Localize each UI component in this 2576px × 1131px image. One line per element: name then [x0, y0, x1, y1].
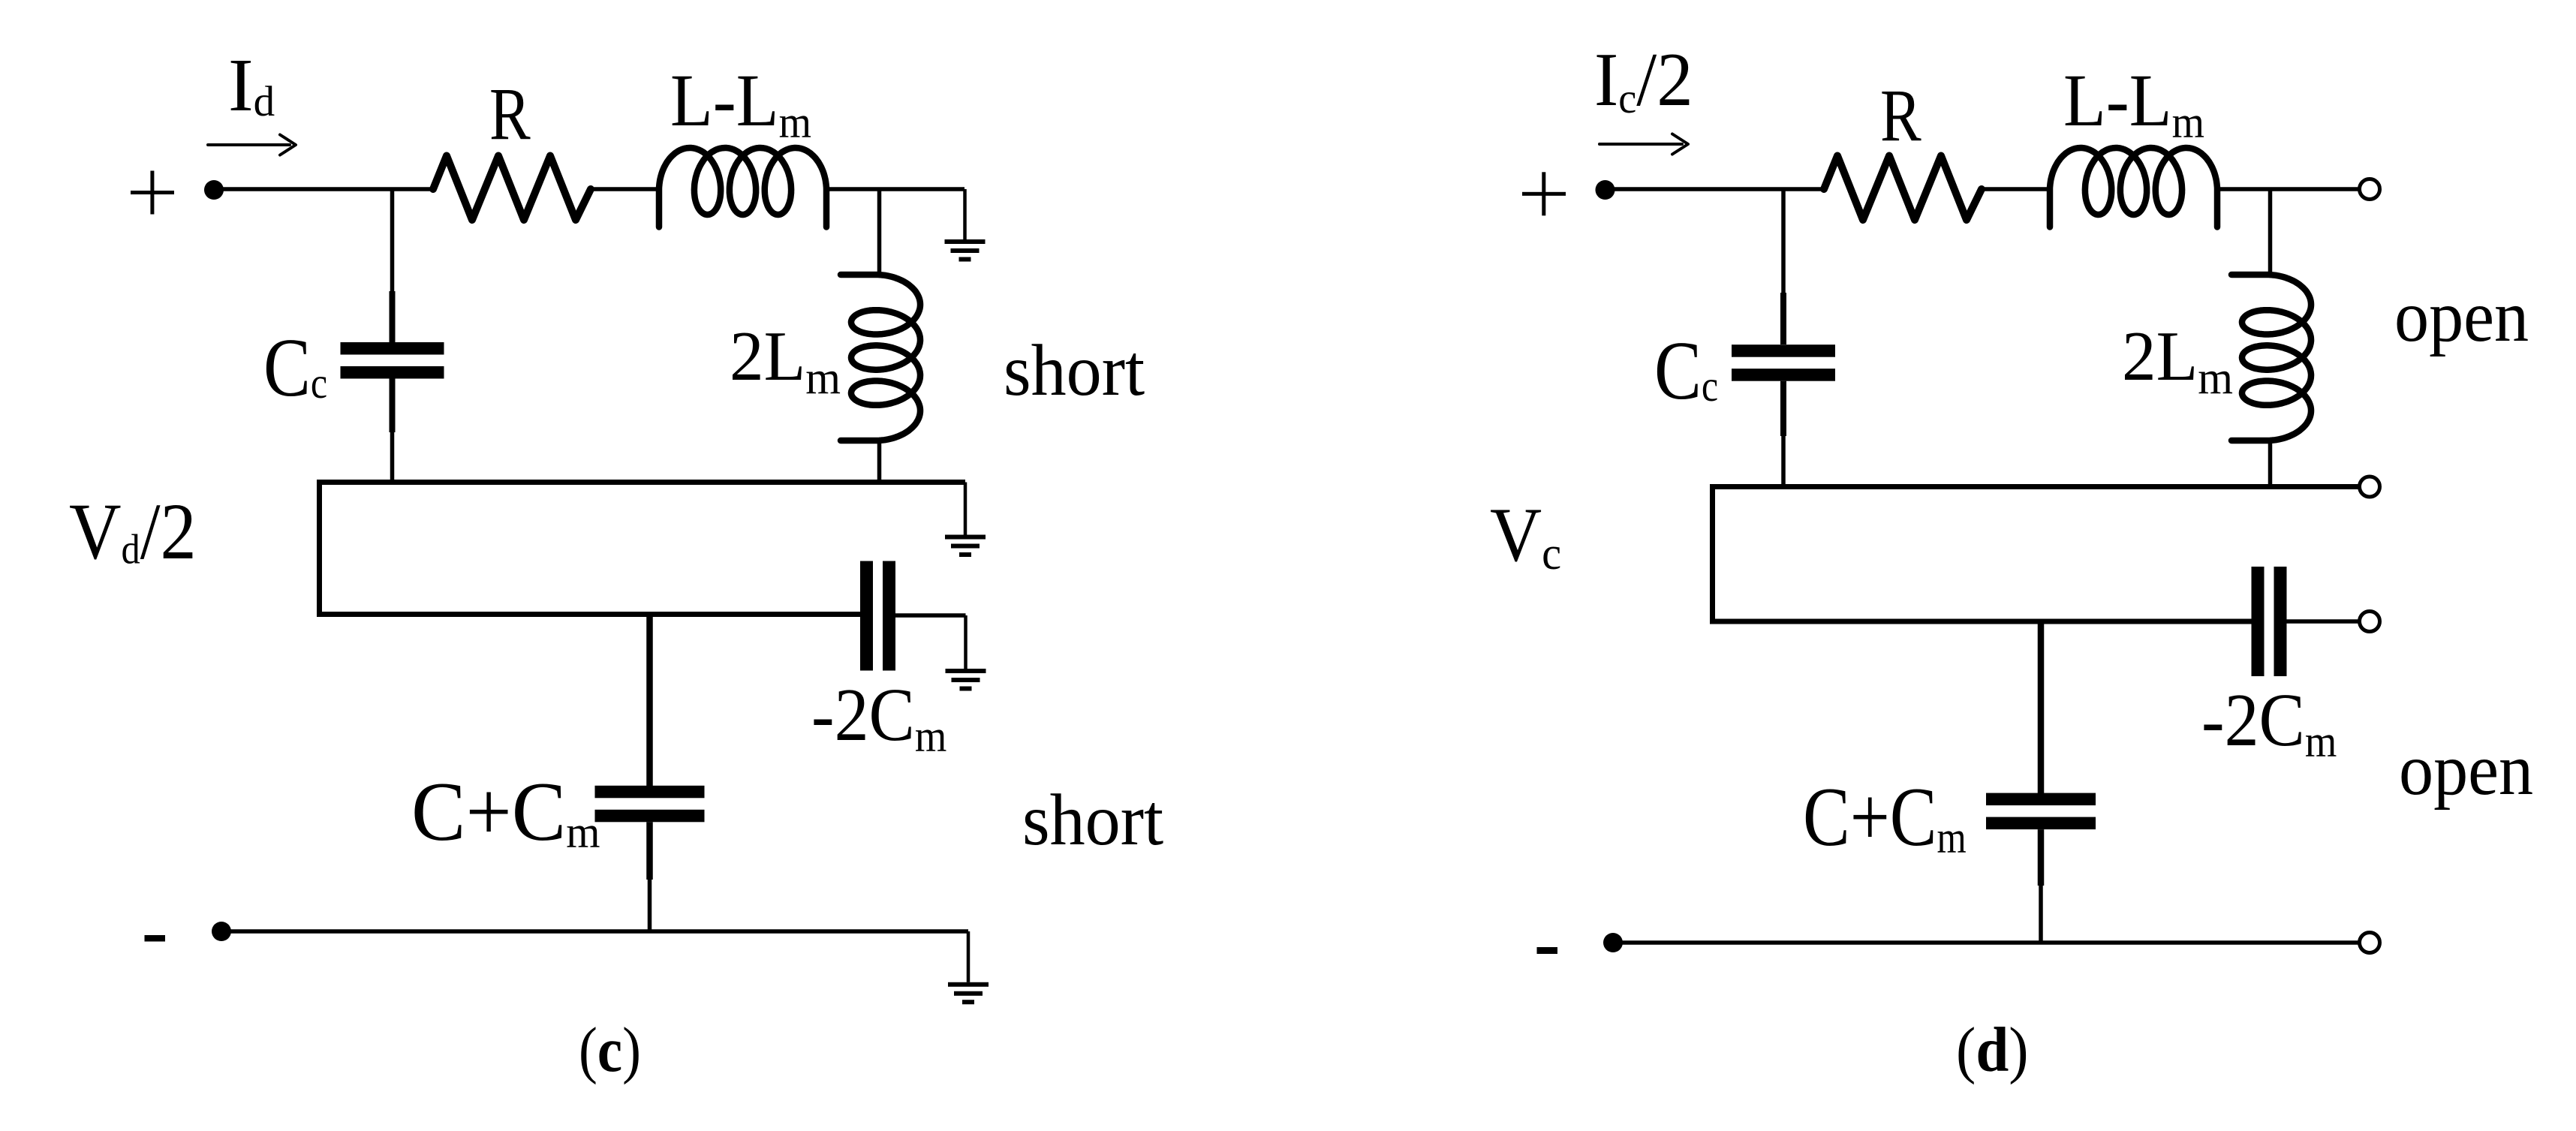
bottom wire (d) — [1613, 940, 2359, 945]
svg-text:short: short — [1004, 330, 1145, 411]
svg-text:open: open — [2394, 277, 2529, 357]
wire node down to 2Lm (d) — [2268, 189, 2273, 275]
capacitor C+Cm (d) — [1986, 793, 2096, 830]
ground G2 box-edge-right (c) — [945, 483, 986, 555]
node dot - terminal (c) — [212, 922, 231, 941]
capacitor Cc (d) — [1732, 344, 1835, 381]
capacitor -2Cm (d) — [2252, 567, 2287, 676]
resistor R (c) — [433, 156, 591, 221]
svg-text:(d): (d) — [1956, 1014, 2029, 1084]
inductor 2Lm (c) — [841, 275, 920, 441]
wire Cc lower lead (c) — [390, 379, 396, 433]
wire -2Cm to ground (c) — [895, 613, 966, 618]
wire 2Lm bottom lead (d) — [2268, 441, 2273, 487]
wire C+Cm upper lead (d) — [2038, 621, 2045, 793]
wire C+Cm lower lead (d) — [2038, 829, 2045, 886]
wire node down to 2Lm (c) — [877, 189, 882, 275]
capacitor C+Cm (c) — [595, 786, 705, 823]
open terminal O2 (d) — [2360, 477, 2380, 497]
inductor 2Lm (d) — [2231, 275, 2311, 441]
source box Vc (d) — [1713, 487, 2360, 622]
capacitor -2Cm (c) — [860, 561, 895, 671]
svg-text:R: R — [489, 72, 531, 155]
ground G1 top-right (c) — [945, 189, 986, 260]
wire Cc upper lead (d) — [1781, 189, 1786, 294]
node dot + terminal (d) — [1596, 180, 1615, 200]
source box Vd/2 (c) — [320, 483, 966, 615]
node dot + terminal (c) — [204, 180, 224, 200]
wire L-Lm to node to open terminal (d) — [2217, 187, 2359, 191]
svg-text:short: short — [1022, 780, 1163, 861]
wire R to L-Lm (c) — [591, 187, 661, 191]
wire L-Lm to node to ground stub (c) — [826, 187, 964, 191]
minus sign (d) — [1537, 947, 1558, 954]
svg-text:(c): (c) — [579, 1015, 641, 1085]
resistor R (d) — [1824, 156, 1982, 221]
inductor L-Lm (c) — [659, 148, 826, 227]
capacitor Cc (c) — [341, 342, 444, 379]
wire Cc lower lead (d) — [1780, 381, 1786, 436]
wire C+Cm upper lead (c) — [646, 615, 653, 787]
wire R to L-Lm (d) — [1982, 187, 2051, 191]
current arrow Id — [208, 135, 296, 155]
current arrow Ic/2 — [1599, 134, 1688, 155]
svg-text:open: open — [2399, 730, 2533, 811]
wire -2Cm to open terminal (d) — [2287, 619, 2360, 624]
plus sign (d) — [1522, 172, 1566, 215]
open terminal O4 (d) — [2360, 933, 2380, 953]
svg-text:R: R — [1880, 74, 1921, 156]
open terminal O3 (d) — [2360, 612, 2380, 632]
wire Cc upper lead (c) — [390, 189, 395, 293]
wire 2Lm bottom lead (c) — [877, 441, 882, 482]
plus sign (c) — [131, 171, 174, 215]
wire + terminal to Cc node (c) — [214, 187, 434, 191]
wire C+Cm lower lead (c) — [646, 822, 653, 880]
ground G3 -2Cm (c) — [946, 615, 986, 689]
minus sign (c) — [145, 935, 166, 942]
open terminal O1 (d) — [2360, 179, 2380, 200]
ground G4 bottom (c) — [948, 931, 989, 1002]
wire + terminal to Cc node (d) — [1605, 187, 1825, 191]
bottom wire (c) — [221, 929, 968, 934]
node dot - terminal (d) — [1603, 933, 1623, 952]
inductor L-Lm (d) — [2050, 148, 2217, 227]
svg-text:Ic/2: Ic/2 — [1594, 37, 1693, 123]
